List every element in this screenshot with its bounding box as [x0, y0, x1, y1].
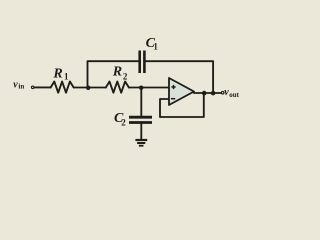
svg-text:in: in [18, 83, 24, 91]
svg-text:R: R [52, 67, 62, 82]
svg-text:1: 1 [64, 72, 69, 82]
svg-text:2: 2 [121, 118, 126, 128]
svg-text:1: 1 [153, 42, 158, 52]
svg-text:out: out [229, 91, 239, 99]
svg-text:2: 2 [123, 72, 128, 82]
svg-text:R: R [112, 65, 122, 80]
